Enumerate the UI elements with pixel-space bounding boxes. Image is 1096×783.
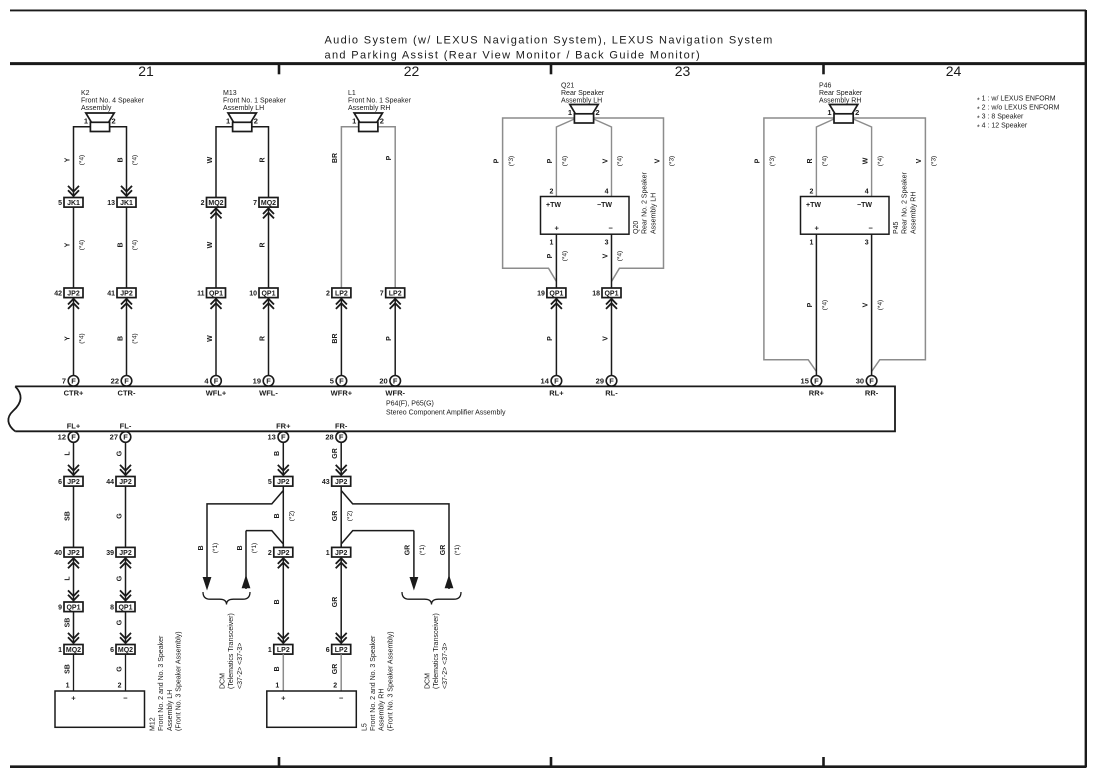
svg-text:W: W	[207, 241, 214, 248]
svg-text:JP2: JP2	[67, 550, 80, 557]
svg-text:11: 11	[197, 291, 205, 298]
wire K2 pin1 lead	[74, 127, 91, 198]
label M13 description	[223, 90, 287, 112]
svg-text:V: V	[916, 158, 923, 163]
svg-text:Assembly: Assembly	[81, 105, 112, 112]
svg-text:(*4): (*4)	[822, 156, 829, 166]
connector JP2 pin 39	[106, 547, 135, 568]
svg-text:2: 2	[855, 108, 859, 117]
title text	[325, 35, 774, 62]
svg-text:6: 6	[326, 647, 330, 654]
speaker box L5 front No.2/No.3 RH	[267, 691, 357, 727]
svg-text:(*1): (*1)	[419, 545, 426, 555]
svg-text:L: L	[64, 451, 71, 456]
terminal F15 RR+	[801, 376, 825, 398]
wire Q20 pin3 to QP1-18	[611, 234, 613, 288]
svg-text:(Front No. 3 Speaker Assembly): (Front No. 3 Speaker Assembly)	[176, 631, 183, 731]
svg-text:(Front No. 3 Speaker Assembly): (Front No. 3 Speaker Assembly)	[387, 631, 394, 731]
label amplifier assembly	[386, 401, 506, 417]
svg-text:F: F	[71, 433, 76, 442]
wire Q21 pin2 to Q20 pin4	[594, 119, 612, 197]
svg-text:1: 1	[549, 239, 553, 246]
svg-text:Assembly LH: Assembly LH	[650, 193, 657, 234]
stereo component amplifier assembly band P64/P65	[15, 386, 895, 431]
svg-text:5: 5	[330, 377, 334, 386]
svg-text:2: 2	[809, 188, 813, 195]
svg-text:P: P	[386, 155, 393, 160]
page top border line	[10, 9, 1086, 11]
connector JP2 pin 40	[54, 547, 83, 568]
header tick 22/23	[550, 64, 553, 75]
svg-text:JP2: JP2	[119, 479, 132, 486]
wire LP2-1 to L5 pin1 (gray)	[282, 654, 284, 691]
svg-text:2: 2	[201, 200, 205, 207]
label M12 rotated description	[150, 631, 183, 731]
svg-text:6: 6	[110, 647, 114, 654]
svg-text:(*3): (*3)	[508, 156, 515, 166]
speaker K2	[84, 113, 116, 132]
svg-text:G: G	[116, 513, 123, 519]
connector QP1 pin 8	[110, 590, 135, 611]
svg-text:19: 19	[537, 291, 545, 298]
svg-text:SB: SB	[64, 511, 71, 521]
header rule line	[10, 62, 1086, 65]
terminal F5 WFR+	[330, 376, 353, 398]
svg-text:F: F	[266, 377, 271, 386]
svg-text:P45: P45	[893, 221, 900, 234]
wire QP1-11 to WFL+	[215, 298, 217, 376]
svg-text:B: B	[117, 157, 124, 162]
terminal F13 FR+	[267, 421, 291, 442]
svg-text:F: F	[609, 377, 614, 386]
svg-text:2: 2	[112, 117, 116, 126]
svg-text:1: 1	[66, 683, 70, 690]
svg-text:P: P	[755, 158, 762, 163]
wire FR+ to JP2-5	[282, 442, 284, 476]
svg-text:Rear No. 2 Speaker: Rear No. 2 Speaker	[902, 171, 909, 234]
svg-text:P: P	[807, 302, 814, 307]
svg-text:Audio System (w/ LEXUS Navigat: Audio System (w/ LEXUS Navigation System…	[325, 35, 774, 47]
svg-text:43: 43	[322, 479, 330, 486]
svg-text:M13: M13	[223, 90, 237, 97]
svg-text:V: V	[654, 158, 661, 163]
svg-text:(*2): (*2)	[346, 511, 353, 521]
svg-text:QP1: QP1	[604, 291, 618, 298]
svg-text:28: 28	[325, 433, 333, 442]
wire FL+ to JP2-6	[73, 442, 75, 476]
svg-text:G: G	[116, 450, 123, 456]
svg-text:G: G	[116, 575, 123, 581]
wire FR- to JP2-43	[340, 442, 342, 476]
bottom page border	[10, 765, 1086, 768]
svg-text:B: B	[117, 242, 124, 247]
svg-text:(*1): (*1)	[251, 543, 258, 553]
speaker L1	[352, 113, 384, 132]
label L1 description	[348, 90, 412, 112]
svg-text:42: 42	[54, 291, 62, 298]
svg-text:WFL+: WFL+	[206, 388, 227, 397]
svg-text:R: R	[259, 242, 266, 247]
arrow from DCM right	[445, 575, 454, 589]
svg-text:2: 2	[380, 117, 384, 126]
arrow into DCM left	[203, 577, 212, 591]
wire JP2-43 to JP2-1	[340, 486, 342, 547]
svg-text:and Parking Assist (Rear View: and Parking Assist (Rear View Monitor / …	[325, 50, 702, 62]
svg-text:B: B	[117, 336, 124, 341]
terminal F22 CTR-	[111, 376, 136, 398]
wire MQ2-2 to QP1-11	[215, 207, 217, 288]
svg-text:2: 2	[549, 188, 553, 195]
wire MQ2-1 to M12 pin1	[73, 654, 75, 691]
svg-text:9: 9	[58, 605, 62, 612]
branch wire DCM to JP2-2 (B *1)	[246, 531, 283, 548]
terminal F30 RR-	[856, 376, 879, 398]
svg-text:V: V	[602, 253, 609, 258]
svg-text:5: 5	[268, 479, 272, 486]
label DCM right rotated	[425, 613, 449, 689]
wire LP2-6 to L5 pin2 (gray)	[340, 654, 342, 691]
branch wire DCM to JP2-1 (GR *1)	[341, 531, 414, 548]
svg-text:B: B	[274, 666, 281, 671]
svg-text:41: 41	[107, 291, 115, 298]
svg-text:P64(F), P65(G): P64(F), P65(G)	[386, 401, 434, 408]
svg-text:40: 40	[54, 550, 62, 557]
svg-text:P46: P46	[819, 83, 832, 90]
wire QP1-10 to WFL-	[268, 298, 270, 376]
svg-text:Assembly RH: Assembly RH	[348, 105, 390, 112]
svg-text:15: 15	[801, 377, 809, 386]
bottom tick 21/22	[278, 757, 281, 767]
connector JP2 pin 2	[268, 547, 293, 568]
svg-text:27: 27	[110, 433, 118, 442]
svg-text:(*4): (*4)	[132, 240, 139, 250]
svg-text:F: F	[71, 377, 76, 386]
wire MQ2-6 to M12 pin2	[125, 654, 127, 691]
svg-text:F: F	[869, 377, 874, 386]
terminal F28 FR-	[325, 421, 348, 442]
svg-text:24: 24	[946, 63, 962, 79]
connector JP2 pin 1	[326, 547, 351, 568]
wire QP1-19 to RL+	[555, 298, 557, 376]
wire JP2-42 to CTR+	[73, 298, 75, 376]
svg-text:(*1): (*1)	[212, 543, 219, 553]
wire M13 pin2 lead	[252, 127, 269, 198]
svg-text:P: P	[547, 158, 554, 163]
svg-text:(*4): (*4)	[79, 155, 86, 165]
svg-text:(*4): (*4)	[822, 300, 829, 310]
svg-text:RL+: RL+	[549, 388, 564, 397]
svg-text:+TW: +TW	[806, 202, 821, 209]
svg-text:FR-: FR-	[335, 421, 348, 430]
svg-text:Front No. 1 Speaker: Front No. 1 Speaker	[348, 98, 412, 105]
wire Q21 outer loop left (gray, 8-speaker)	[503, 118, 575, 282]
right page border	[1085, 10, 1087, 768]
svg-text:Assembly LH: Assembly LH	[167, 690, 174, 731]
svg-text:Rear Speaker: Rear Speaker	[561, 90, 605, 97]
svg-text:(*4): (*4)	[562, 156, 569, 166]
connector LP2 pin 6	[326, 633, 351, 654]
stub wire DCM feed right	[413, 531, 415, 578]
svg-text:−: −	[869, 224, 874, 233]
svg-text:G: G	[116, 666, 123, 672]
wire JK1-5 to JP2-42	[73, 207, 75, 288]
svg-text:1: 1	[352, 117, 356, 126]
svg-text:Stereo Component Amplifier Ass: Stereo Component Amplifier Assembly	[386, 410, 506, 417]
svg-text:F: F	[554, 377, 559, 386]
svg-text:1: 1	[84, 117, 88, 126]
svg-text:WFL-: WFL-	[259, 388, 278, 397]
wire JP2-1 to LP2-6	[340, 557, 342, 645]
svg-text:+: +	[555, 224, 560, 233]
wire JP2-5 to JP2-2	[282, 486, 284, 547]
svg-text:V: V	[862, 302, 869, 307]
svg-text:4: 4	[605, 188, 609, 195]
svg-text:LP2: LP2	[335, 291, 348, 298]
connector LP2 pin 1	[268, 633, 293, 654]
svg-text:(*4): (*4)	[79, 333, 86, 343]
wire JP2-2 to LP2-1	[282, 557, 284, 645]
terminal F29 RL-	[596, 376, 619, 398]
svg-text:MQ2: MQ2	[208, 200, 223, 207]
svg-text:LP2: LP2	[335, 647, 348, 654]
svg-text:QP1: QP1	[549, 291, 563, 298]
svg-text:−: −	[123, 694, 128, 703]
terminal F12 FL+	[58, 421, 81, 442]
wire MQ2-7 to QP1-10	[268, 207, 270, 288]
connector MQ2 pin 7	[253, 198, 278, 219]
svg-text:+: +	[71, 694, 76, 703]
svg-text:WFR+: WFR+	[331, 388, 353, 397]
wire JP2-40 to QP1-9	[73, 557, 75, 602]
wire FL- to JP2-44	[125, 442, 127, 476]
svg-text:(*2): (*2)	[289, 511, 296, 521]
wire L1 pin2 lead (gray)	[378, 127, 395, 288]
connector JK1 pin 5	[58, 186, 83, 207]
svg-text:K2: K2	[81, 90, 90, 97]
terminal F27 FL-	[110, 421, 132, 442]
svg-text:−TW: −TW	[857, 202, 872, 209]
svg-text:2: 2	[254, 117, 258, 126]
svg-text:1: 1	[809, 239, 813, 246]
svg-text:Assembly RH: Assembly RH	[379, 689, 386, 731]
svg-text:19: 19	[253, 377, 261, 386]
svg-text:Q21: Q21	[561, 83, 574, 90]
svg-text:2: 2	[326, 291, 330, 298]
svg-text:Front No. 4 Speaker: Front No. 4 Speaker	[81, 98, 145, 105]
wire QP1-18 to RL-	[611, 298, 613, 376]
label Q21 description	[561, 83, 605, 105]
svg-text:(*3): (*3)	[669, 156, 676, 166]
label L5 rotated description	[361, 631, 394, 731]
svg-text:QP1: QP1	[261, 291, 275, 298]
svg-text:F: F	[339, 433, 344, 442]
svg-text:V: V	[602, 336, 609, 341]
svg-text:GR: GR	[332, 664, 339, 675]
svg-text:39: 39	[106, 550, 114, 557]
svg-text:(*3): (*3)	[769, 156, 776, 166]
brace DCM left	[203, 592, 250, 605]
svg-text:JP2: JP2	[335, 550, 348, 557]
svg-text:BR: BR	[332, 153, 339, 163]
svg-text:V: V	[602, 158, 609, 163]
svg-text:FR+: FR+	[276, 421, 291, 430]
svg-text:B: B	[237, 545, 244, 550]
svg-text:23: 23	[675, 63, 691, 79]
svg-text:L: L	[64, 576, 71, 581]
svg-text:Rear Speaker: Rear Speaker	[819, 90, 863, 97]
svg-text:QP1: QP1	[118, 605, 132, 612]
svg-text:1: 1	[58, 647, 62, 654]
svg-text:FL+: FL+	[67, 421, 81, 430]
svg-text:<37-2> <37-3>: <37-2> <37-3>	[442, 643, 449, 689]
bottom tick 22/23	[550, 757, 553, 767]
connector QP1 pin 18	[592, 288, 621, 309]
wire L1 pin1 lead (gray)	[341, 127, 358, 288]
svg-text:RL-: RL-	[605, 388, 618, 397]
terminal F7 CTR+	[62, 376, 84, 398]
svg-text:QP1: QP1	[209, 291, 223, 298]
svg-text:LP2: LP2	[277, 647, 290, 654]
svg-text:+: +	[815, 224, 820, 233]
label P45 rotated description	[893, 171, 917, 234]
svg-text:(*4): (*4)	[617, 156, 624, 166]
svg-text:(*3): (*3)	[931, 156, 938, 166]
svg-text:(*4): (*4)	[617, 251, 624, 261]
wire LP2-2 to WFR+	[340, 298, 342, 376]
svg-text:Q20: Q20	[633, 221, 640, 234]
svg-text:6: 6	[58, 479, 62, 486]
svg-text:Y: Y	[64, 242, 71, 247]
wire P46 outer loop right (gray, 8-speaker)	[853, 118, 925, 372]
svg-text:F: F	[814, 377, 819, 386]
svg-text:(*4): (*4)	[79, 240, 86, 250]
svg-text:18: 18	[592, 291, 600, 298]
svg-text:Y: Y	[64, 157, 71, 162]
connector JP2 pin 44	[106, 465, 135, 486]
svg-text:22: 22	[111, 377, 119, 386]
svg-text:30: 30	[856, 377, 864, 386]
svg-text:5: 5	[58, 200, 62, 207]
svg-text:3: 3	[605, 239, 609, 246]
svg-text:12: 12	[58, 433, 66, 442]
svg-text:1: 1	[268, 647, 272, 654]
wire P46 pin1 to P45 pin2	[816, 119, 834, 197]
svg-text:JP2: JP2	[335, 479, 348, 486]
connector QP1 pin 10	[249, 288, 278, 309]
svg-text:G: G	[116, 619, 123, 625]
svg-text:8: 8	[110, 605, 114, 612]
svg-text:F: F	[281, 433, 286, 442]
svg-text:Front No. 2 and No. 3 Speaker: Front No. 2 and No. 3 Speaker	[370, 635, 377, 731]
svg-text:CTR-: CTR-	[118, 388, 136, 397]
header tick 21/22	[278, 64, 281, 75]
connector QP1 pin 19	[537, 288, 566, 309]
svg-text:RR-: RR-	[865, 388, 879, 397]
svg-text:F: F	[393, 377, 398, 386]
svg-text:P: P	[547, 336, 554, 341]
svg-text:JP2: JP2	[277, 479, 290, 486]
svg-text:GR: GR	[332, 448, 339, 459]
svg-text:DCM: DCM	[220, 673, 227, 689]
svg-text:R: R	[807, 158, 814, 163]
svg-text:SB: SB	[64, 618, 71, 628]
svg-text:B: B	[274, 599, 281, 604]
speaker box M12 front No.2/No.3 LH	[55, 691, 145, 727]
tweeter box Q20 rear No.2 speaker LH	[541, 197, 630, 235]
svg-text:−: −	[339, 694, 344, 703]
svg-text:B: B	[198, 545, 205, 550]
connector QP1 pin 11	[197, 288, 225, 309]
svg-text:(Telematics Transceiver): (Telematics Transceiver)	[228, 613, 235, 689]
svg-text:−TW: −TW	[597, 202, 612, 209]
speaker P46	[827, 105, 859, 124]
svg-text:BR: BR	[332, 333, 339, 343]
svg-text:(*4): (*4)	[132, 155, 139, 165]
svg-text:1: 1	[568, 108, 572, 117]
svg-text:1: 1	[226, 117, 230, 126]
wire JK1-13 to JP2-41	[126, 207, 128, 288]
svg-text:L5: L5	[361, 723, 368, 731]
wire Q21 outer loop right (gray, 8-speaker)	[594, 118, 664, 282]
wire P45 pin1 to RR+	[815, 234, 817, 375]
connector JP2 pin 42	[54, 288, 83, 309]
label Q20 rotated description	[633, 171, 657, 234]
svg-text:Front No. 1 Speaker: Front No. 1 Speaker	[223, 98, 287, 105]
svg-text:M12: M12	[150, 717, 157, 731]
svg-text:JP2: JP2	[119, 550, 132, 557]
svg-text:(*4): (*4)	[132, 333, 139, 343]
connector LP2 pin 2	[326, 288, 351, 309]
svg-text:−: −	[609, 224, 614, 233]
svg-text:GR: GR	[405, 545, 412, 556]
wire M13 pin1 lead	[216, 127, 233, 198]
wire JP2-39 to QP1-8	[125, 557, 127, 602]
arrow into DCM right	[410, 577, 419, 591]
wire P46 outer loop left (gray, 8-speaker)	[764, 118, 834, 372]
tweeter box P45 rear No.2 speaker RH	[801, 197, 890, 235]
svg-text:JK1: JK1	[67, 200, 80, 207]
svg-text:R: R	[259, 157, 266, 162]
svg-text:JP2: JP2	[277, 550, 290, 557]
wire QP1-8 to MQ2-6	[125, 612, 127, 645]
wire JP2-6 to JP2-40	[73, 486, 75, 547]
branch wire JP2-43 to DCM (GR *1)	[341, 491, 449, 590]
svg-text:<37-2> <37-3>: <37-2> <37-3>	[237, 643, 244, 689]
svg-text:14: 14	[541, 377, 550, 386]
svg-text:JP2: JP2	[120, 291, 133, 298]
label K2 description	[81, 90, 145, 112]
connector JK1 pin 13	[107, 186, 136, 207]
svg-text:LP2: LP2	[389, 291, 402, 298]
svg-text:44: 44	[106, 479, 114, 486]
header tick 23/24	[822, 64, 825, 75]
svg-text:JP2: JP2	[67, 479, 80, 486]
svg-text:F: F	[339, 377, 344, 386]
svg-text:MQ2: MQ2	[66, 647, 81, 654]
svg-text:W: W	[862, 157, 869, 164]
svg-text:1: 1	[275, 683, 279, 690]
wire K2 pin2 lead	[110, 127, 127, 198]
svg-text:13: 13	[267, 433, 275, 442]
svg-text:13: 13	[107, 200, 115, 207]
svg-text:R: R	[259, 336, 266, 341]
svg-text:Assembly LH: Assembly LH	[561, 98, 602, 105]
connector JP2 pin 5	[268, 465, 293, 486]
svg-text:MQ2: MQ2	[118, 647, 133, 654]
svg-text:W: W	[207, 156, 214, 163]
svg-text:QP1: QP1	[66, 605, 80, 612]
label P46 description	[819, 83, 863, 105]
